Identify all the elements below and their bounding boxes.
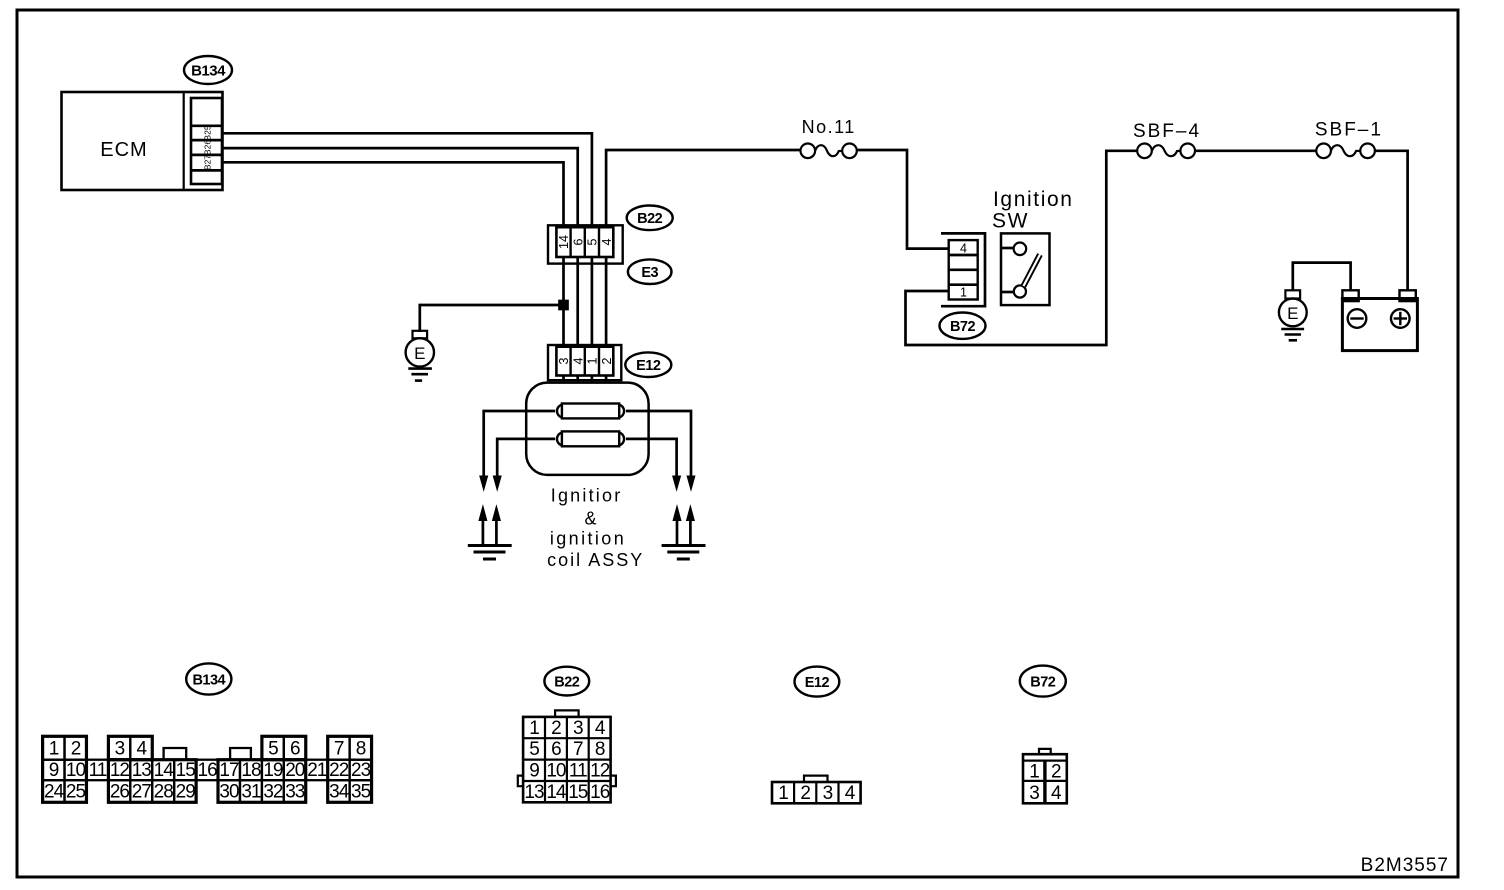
E12 pinout grid	[772, 776, 861, 804]
svg-text:8: 8	[595, 739, 605, 760]
svg-text:1: 1	[529, 718, 539, 739]
wire No.11 fuse to B22 pin 4	[606, 150, 800, 383]
svg-text:1: 1	[49, 738, 59, 759]
ignition switch SW1	[992, 188, 1074, 305]
svg-text:24: 24	[44, 782, 65, 803]
svg-text:1: 1	[586, 357, 600, 364]
svg-text:20: 20	[285, 760, 305, 781]
svg-text:34: 34	[329, 782, 350, 803]
up arrow to ground (left b)	[493, 506, 501, 545]
svg-text:7: 7	[334, 738, 344, 759]
svg-text:ignition: ignition	[550, 529, 626, 549]
B22 pinout grid	[518, 710, 616, 802]
wire junction to ground E	[420, 305, 564, 332]
svg-text:26: 26	[110, 782, 130, 803]
arrow down	[687, 476, 695, 490]
connector label B22 oval	[627, 206, 673, 231]
svg-text:3: 3	[557, 357, 571, 364]
ignition coil 2	[557, 431, 624, 446]
svg-text:32: 32	[263, 782, 283, 803]
svg-text:29: 29	[176, 782, 196, 803]
arrow down	[480, 476, 488, 490]
svg-text:B72: B72	[1030, 675, 1056, 691]
up arrow to ground (right b)	[687, 506, 695, 545]
connector B22/E3	[548, 225, 623, 263]
battery BAT	[1342, 290, 1417, 350]
svg-text:9: 9	[49, 760, 59, 781]
svg-text:5: 5	[268, 738, 278, 759]
wire No.11 to B72 pin 4	[857, 150, 949, 249]
up arrow to ground (right a)	[673, 506, 681, 545]
ground E (right)	[1279, 290, 1307, 340]
wire SBF-4 to SBF-1	[1195, 149, 1316, 152]
svg-text:8: 8	[356, 738, 366, 759]
arrow down	[493, 476, 501, 490]
svg-text:E: E	[1287, 304, 1298, 323]
ground (left pair)	[468, 546, 512, 560]
B134 pinout grid	[43, 736, 372, 802]
svg-text:6: 6	[551, 739, 561, 760]
svg-text:9: 9	[529, 761, 539, 782]
up arrow to ground (left a)	[479, 506, 487, 545]
svg-text:coil ASSY: coil ASSY	[547, 550, 644, 570]
wire battery minus to ground E	[1293, 263, 1351, 291]
svg-text:12: 12	[110, 760, 130, 781]
svg-text:E: E	[414, 344, 425, 363]
svg-text:1: 1	[1029, 761, 1039, 782]
svg-text:SBF–1: SBF–1	[1315, 120, 1383, 141]
svg-text:2: 2	[71, 738, 81, 759]
svg-text:2: 2	[800, 783, 810, 804]
wire B27 to B22 pin 1	[222, 162, 564, 382]
wire coil2 left output	[497, 439, 555, 477]
svg-text:Ignitior: Ignitior	[551, 486, 623, 506]
wire B72 pin 1 to SBF-4	[906, 151, 1138, 345]
svg-text:&: &	[584, 509, 596, 529]
B72 pinout grid	[1023, 749, 1067, 803]
svg-text:E3: E3	[641, 265, 658, 281]
svg-text:6: 6	[290, 738, 300, 759]
svg-text:1: 1	[960, 286, 967, 300]
svg-text:28: 28	[154, 782, 174, 803]
svg-text:4: 4	[595, 718, 606, 739]
connector E12	[548, 345, 621, 380]
ignitor and ignition coil ASSY box	[526, 383, 648, 475]
svg-text:14: 14	[557, 235, 571, 249]
ground (right pair)	[662, 546, 706, 560]
svg-text:SBF–4: SBF–4	[1133, 121, 1201, 142]
svg-text:2: 2	[1051, 761, 1061, 782]
svg-text:18: 18	[241, 760, 261, 781]
svg-text:ECM: ECM	[100, 139, 147, 161]
svg-text:4: 4	[137, 738, 148, 759]
connector B134 (ECM side)	[191, 98, 222, 184]
svg-text:4: 4	[960, 242, 967, 256]
svg-text:33: 33	[285, 782, 305, 803]
bottom pinout E12 oval	[795, 667, 840, 697]
connector label B134 oval	[184, 56, 232, 84]
svg-text:14: 14	[154, 760, 175, 781]
wire coil1 left output	[484, 411, 556, 477]
svg-text:B25: B25	[203, 125, 213, 140]
svg-text:1: 1	[778, 783, 788, 804]
bottom pinout B22 oval	[544, 667, 589, 696]
junction node	[560, 301, 568, 309]
svg-text:13: 13	[132, 760, 152, 781]
svg-text:No.11: No.11	[802, 117, 856, 137]
svg-text:B27: B27	[203, 155, 213, 170]
svg-text:B22: B22	[637, 211, 663, 227]
svg-text:3: 3	[1029, 783, 1039, 804]
connector label B72 oval	[940, 313, 986, 339]
svg-text:31: 31	[241, 782, 261, 803]
svg-text:E12: E12	[805, 675, 830, 691]
svg-text:5: 5	[529, 739, 539, 760]
fuse SBF-1	[1315, 120, 1383, 159]
ignition coil 1	[557, 404, 624, 419]
svg-text:5: 5	[586, 238, 600, 245]
bottom pinout B134 oval	[186, 663, 231, 694]
wire SBF-1 to battery plus	[1375, 151, 1408, 290]
svg-text:21: 21	[307, 760, 327, 781]
svg-text:B22: B22	[554, 675, 580, 691]
wire B25 to B22 pin 3	[222, 133, 592, 382]
svg-text:11: 11	[89, 760, 107, 781]
svg-text:13: 13	[524, 782, 544, 803]
svg-text:3: 3	[573, 718, 583, 739]
svg-text:SW: SW	[992, 210, 1029, 233]
svg-text:B26: B26	[203, 140, 213, 155]
wire coil1 right output	[626, 411, 691, 477]
ground E (left)	[406, 331, 434, 381]
wire B26 to B22 pin 2	[222, 148, 578, 382]
svg-text:17: 17	[219, 760, 239, 781]
connector label E3 oval	[628, 259, 672, 284]
svg-text:3: 3	[823, 783, 833, 804]
svg-text:22: 22	[329, 760, 349, 781]
svg-text:19: 19	[263, 760, 283, 781]
svg-text:4: 4	[571, 357, 585, 364]
svg-text:B134: B134	[191, 63, 226, 80]
svg-text:2: 2	[551, 718, 561, 739]
svg-text:B2M3557: B2M3557	[1361, 855, 1449, 876]
svg-text:10: 10	[546, 761, 566, 782]
svg-text:27: 27	[132, 782, 152, 803]
svg-text:11: 11	[569, 761, 587, 782]
wire coil2 right output	[626, 439, 677, 477]
connector B72 (ignition switch)	[941, 233, 985, 306]
connector label E12 oval	[625, 352, 671, 377]
svg-text:15: 15	[176, 760, 196, 781]
svg-text:4: 4	[600, 238, 614, 245]
fuse No.11	[801, 117, 857, 158]
svg-text:35: 35	[351, 782, 371, 803]
svg-text:16: 16	[590, 782, 610, 803]
svg-text:6: 6	[571, 238, 585, 245]
svg-text:4: 4	[845, 783, 856, 804]
svg-text:25: 25	[66, 782, 86, 803]
fuse SBF-4	[1133, 121, 1201, 158]
svg-text:3: 3	[115, 738, 125, 759]
svg-text:30: 30	[219, 782, 239, 803]
svg-text:15: 15	[568, 782, 588, 803]
svg-text:14: 14	[546, 782, 567, 803]
ECM U1	[62, 92, 223, 190]
bottom pinout B72 oval	[1020, 666, 1066, 697]
svg-text:B134: B134	[192, 673, 225, 689]
svg-text:12: 12	[590, 761, 610, 782]
svg-text:16: 16	[198, 760, 218, 781]
svg-text:E12: E12	[636, 358, 661, 374]
svg-text:4: 4	[1051, 783, 1062, 804]
svg-text:10: 10	[66, 760, 86, 781]
svg-text:Ignition: Ignition	[993, 188, 1074, 211]
svg-text:B72: B72	[950, 319, 976, 335]
label Ignitor and ignition coil ASSY	[547, 486, 644, 571]
arrow down	[673, 476, 681, 490]
svg-text:7: 7	[573, 739, 583, 760]
svg-text:23: 23	[351, 760, 371, 781]
svg-text:2: 2	[600, 357, 614, 364]
